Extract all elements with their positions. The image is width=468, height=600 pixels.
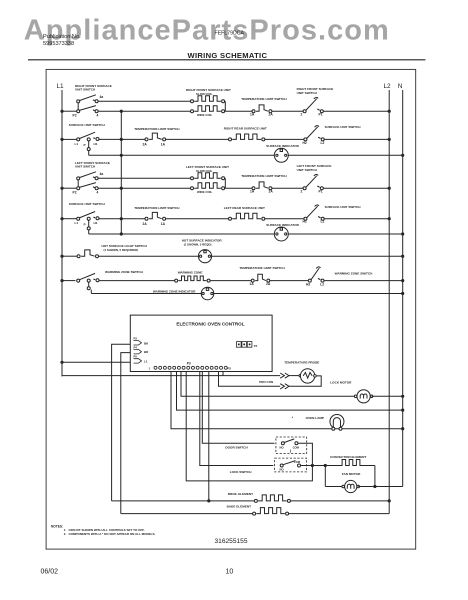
wire row7 to indicator [99,255,199,257]
element convection [325,465,338,467]
svg-text:P5: P5 [134,355,138,359]
svg-text:P3: P3 [228,366,232,370]
svg-text:2: 2 [301,189,303,193]
svg-text:P2: P2 [73,114,77,118]
element left front surface unit wide coil [191,187,194,190]
svg-text:UNIT SWITCH: UNIT SWITCH [75,165,96,169]
wire row8 limit to switch [270,280,309,282]
motor fan motor [342,485,345,488]
element bake [253,512,256,515]
switch right front surface unit switch [77,100,80,103]
svg-text:1A: 1A [161,222,166,226]
switch left front surface unit switch [77,177,80,180]
svg-text:4a: 4a [100,95,104,99]
svg-text:L1: L1 [75,142,79,146]
svg-text:H2: H2 [303,220,307,224]
feeder bus A (vertical) [120,111,122,234]
wire row2 coil to switch [265,138,304,140]
svg-text:1A: 1A [161,143,166,147]
wire pin drop to lock row2 [177,372,403,411]
svg-text:WARMING ZONE: WARMING ZONE [178,271,203,275]
wire row1 to L2 [323,110,389,112]
wire row4 limit to switch [272,187,303,189]
svg-text:BAKE ELEMENT: BAKE ELEMENT [227,505,252,509]
svg-text:1: 1 [149,366,151,370]
junction row7-N [401,255,404,258]
junction row3-N [401,154,404,157]
svg-text:LOCK MOTOR: LOCK MOTOR [330,380,352,384]
switch temperature limit row2 [145,138,148,141]
schematic border frame [46,69,416,549]
switch left front surface unit right [303,187,306,190]
svg-text:WIRING SCHEMATIC: WIRING SCHEMATIC [188,51,268,60]
wire row1 main [98,110,190,112]
junction conv-fan tie [373,485,376,488]
svg-text:SLOW COIL: SLOW COIL [196,169,213,173]
bus N (vertical) [402,90,404,487]
op-amp U1 electronic oven control box [130,315,272,371]
svg-text:WARMING ZONE INDICATOR: WARMING ZONE INDICATOR [153,290,196,294]
svg-text:5995373338: 5995373338 [43,41,74,47]
wire row1 to limit [225,110,252,112]
svg-text:TEMPERATURE LIMIT SWITCH: TEMPERATURE LIMIT SWITCH [239,266,285,270]
junction busA-row3 [120,154,123,157]
svg-text:FEFL79DCA: FEFL79DCA [215,31,245,37]
junction L1-row7 [60,255,63,258]
wire row9 to N [214,293,403,295]
junction row2-L2 [388,138,391,141]
switch surface unit row2 [77,138,80,141]
svg-text:BROIL ELEMENT: BROIL ELEMENT [228,492,253,496]
wire row5 limit to coil [166,218,229,220]
motor lock motor [354,395,357,398]
svg-text:L2: L2 [321,141,325,145]
wire broil to L2 [290,500,389,502]
svg-text:TEMPERATURE LIMIT SWITCH: TEMPERATURE LIMIT SWITCH [241,174,287,178]
svg-text:2A: 2A [143,222,148,226]
svg-text:SURFACE UNIT SWITCH: SURFACE UNIT SWITCH [69,123,106,127]
wire row5 to L2 [324,218,389,220]
junction busA-row6 [120,232,123,235]
junction row8-N [401,279,404,282]
svg-text:BR: BR [144,350,149,354]
switch lock (dashed box) [275,458,307,472]
wire lock switch out [301,465,326,467]
connector P2 BK [134,341,142,345]
svg-text:SURFACE UNIT SWITCH: SURFACE UNIT SWITCH [69,202,106,206]
svg-text:1A: 1A [250,282,255,286]
wire row4 upper branch [98,177,190,179]
element left front surface unit slow coil [191,177,194,180]
svg-text:DOOR SWITCH: DOOR SWITCH [225,445,248,449]
svg-text:L1: L1 [75,221,79,225]
element broil [254,499,257,502]
svg-text:UNIT SWITCH: UNIT SWITCH [297,91,318,95]
svg-text:P: P [84,222,86,226]
svg-text:NOTES:: NOTES: [51,525,63,529]
svg-text:FAN MOTOR: FAN MOTOR [342,472,361,476]
svg-text:2A: 2A [269,112,274,116]
svg-text:P2: P2 [73,191,77,195]
wire row8 to N [324,280,403,282]
wire row3 to N [288,154,402,156]
indicator surface indicator row6 [274,227,288,241]
wire pin drop to lock switch [200,372,273,466]
svg-text:AppliancePartsPros.com: AppliancePartsPros.com [24,14,389,46]
component temperature probe [289,375,299,377]
junction pin drop-broil [207,499,210,502]
svg-text:2A: 2A [143,143,148,147]
svg-text:TEMPERATURE PROBE: TEMPERATURE PROBE [284,360,319,364]
switch warming zone switch [77,279,80,282]
svg-text:P1: P1 [319,189,323,193]
svg-text:L2: L2 [384,83,392,90]
svg-text:H1: H1 [94,142,98,146]
wire pin drop to oven lamp row [171,372,403,429]
svg-text:OVEN LAMP: OVEN LAMP [306,416,324,420]
element right rear surface unit [229,138,232,141]
wire bake to L2 [289,513,390,515]
svg-text:316255155: 316255155 [214,538,247,545]
indicator surface indicator row3 [274,148,288,162]
junction L1-row8 [60,279,63,282]
svg-text:LOCK SWITCH: LOCK SWITCH [230,470,253,474]
junction L1-EOC branch [60,361,63,364]
bus L2 (vertical) [388,90,390,514]
svg-text:2: 2 [301,112,303,116]
junction busA-row5 [120,217,123,220]
junction row1-L2 [388,110,391,113]
connector P4 BR [134,350,142,354]
svg-text:L1: L1 [144,359,148,363]
svg-text:P2: P2 [134,337,138,341]
lamp oven lamp [330,415,344,428]
svg-text:*: * [292,416,294,420]
wire door switch out [298,443,313,465]
wire row2 limit to coil [166,138,229,140]
junction row5-L2 [388,217,391,220]
svg-text:COM: COM [294,460,301,464]
wire EOC BR to bake feeder [121,353,131,514]
junction busA-row4 [120,187,123,190]
wire row7 to N [212,255,403,257]
svg-text:NO: NO [280,446,284,450]
wire row1 coil merge [224,101,226,111]
wire broil row [112,500,256,502]
switch surface unit row5 [77,217,80,220]
publication number text [43,34,81,47]
svg-text:SURFACE UNIT SWITCH: SURFACE UNIT SWITCH [325,205,362,209]
svg-text:LEFT REAR SURFACE UNIT: LEFT REAR SURFACE UNIT [224,206,265,210]
wire row8 switch to coil [99,280,175,282]
wire row1 upper branch [98,100,190,102]
svg-text:1A: 1A [250,189,255,193]
connector P5 L1 [134,359,142,363]
svg-text:P3: P3 [187,362,191,366]
switch surface unit row5 right [304,217,307,220]
wire EOC BK to broil feeder [112,344,131,501]
junction row4-L2 [388,187,391,190]
svg-text:RIGHT REAR SURFACE UNIT: RIGHT REAR SURFACE UNIT [224,127,267,131]
junction L1-row2 [60,138,63,141]
svg-text:TEMPERATURE LIMIT SWITCH: TEMPERATURE LIMIT SWITCH [241,97,287,101]
junction L1-row4 [60,187,63,190]
svg-text:BK: BK [144,341,149,345]
svg-text:P4: P4 [254,344,258,348]
svg-text:UNIT SWITCH: UNIT SWITCH [75,88,96,92]
element left rear surface unit [229,217,232,220]
wire row5 to limit [99,218,145,220]
wire pin drop to broil row [208,372,210,501]
wire row2 to L2 [324,138,389,140]
junction door-lock tie [311,464,314,467]
svg-text:SURFACE INDICATOR: SURFACE INDICATOR [266,223,299,227]
junction busA-row2 [120,138,123,141]
svg-text:WIDE COIL: WIDE COIL [197,190,212,194]
svg-text:06/02: 06/02 [41,569,59,576]
wire lock motor to N [372,395,403,397]
svg-text:H1: H1 [94,221,98,225]
svg-text:4: 4 [97,114,99,118]
svg-text:COM: COM [293,446,300,450]
svg-text:WARMING ZONE SWITCH: WARMING ZONE SWITCH [105,270,144,274]
wire row3 pilot drop [88,151,90,156]
wire convection drop [374,466,376,487]
svg-text:(1 SHOWN, 5 REQD): (1 SHOWN, 5 REQD) [184,242,212,246]
switch temperature limit row8 [251,279,254,282]
svg-text:ELECTRONIC OVEN CONTROL: ELECTRONIC OVEN CONTROL [176,321,244,326]
svg-text:2.: 2. [64,532,67,536]
svg-text:L2: L2 [320,282,324,286]
junction lock motor-N [401,395,404,398]
wire fan branch right [358,486,403,488]
svg-text:TEMPERATURE LIMIT SWITCH: TEMPERATURE LIMIT SWITCH [134,127,180,131]
svg-text:Publication No.: Publication No. [43,34,81,40]
svg-text:SURFACE INDICATOR: SURFACE INDICATOR [266,144,299,148]
switch warming zone right [308,279,311,282]
svg-text:4a: 4a [100,172,104,176]
display seven-segment P4 [237,342,242,348]
svg-text:WARMING ZONE SWITCH: WARMING ZONE SWITCH [335,271,374,275]
switch temperature limit row1 [252,110,255,113]
svg-text:2A: 2A [269,189,274,193]
svg-text:CONVECTION ELEMENT: CONVECTION ELEMENT [330,455,366,459]
svg-text:P1: P1 [319,112,323,116]
wire pin drop to door switch [202,372,274,444]
wire row5 from L1 [62,218,77,220]
svg-text:P4: P4 [134,346,138,350]
junction L1-row1 [60,110,63,113]
wire pin drop to probe chevron [222,372,224,376]
svg-text:SLOW COIL: SLOW COIL [196,92,213,96]
wire row6 pilot drop [88,230,90,234]
wire row2 from L1 [62,138,77,140]
svg-text:1A: 1A [250,112,255,116]
svg-text:L2: L2 [321,220,325,224]
svg-text:P: P [84,143,86,147]
wire row1 limit to switch [272,110,303,112]
svg-text:WIDE COIL: WIDE COIL [197,113,212,117]
element right front surface unit slow coil [191,100,194,103]
switch surface unit row2 right [304,138,307,141]
wire row1 from L1 [62,110,77,112]
switch temperature limit row5 [145,217,148,220]
switch door (dashed box) [276,437,307,454]
switch right front surface unit (right) [303,110,306,113]
svg-text:2A: 2A [266,282,271,286]
connector probe chevron lower [280,384,289,389]
wire L1 lower elbow to probe circuit [62,362,280,375]
junction row410-N [401,409,404,412]
wire fan branch left [325,486,343,488]
svg-text:4: 4 [97,191,99,195]
element right front surface unit wide coil [191,110,194,113]
junction lamp row-N [401,427,404,430]
svg-text:L1: L1 [57,83,65,90]
svg-text:SURFACE UNIT SWITCH: SURFACE UNIT SWITCH [325,125,362,129]
svg-text:N: N [398,83,403,90]
wire bake row [121,513,254,515]
bus L1 (vertical) [61,90,63,376]
element warming zone [175,279,178,282]
wire pin drop to lock motor row [181,372,356,397]
wire L1 to EOC P5 [62,361,130,363]
junction row9-N [401,292,404,295]
junction L1-row5 [60,217,63,220]
junction busA-row1 [120,110,123,113]
svg-text:NO: NO [280,467,284,471]
wire row7 from L1 [62,255,77,257]
wire row6 to N [288,233,402,235]
junction broil-L2 [388,499,391,502]
wire row5 coil to switch [265,218,304,220]
svg-text:COMPONENTS WITH A * DO NOT APP: COMPONENTS WITH A * DO NOT APPEAR ON ALL… [69,532,156,536]
svg-text:H2: H2 [306,282,310,286]
svg-text:(1 SHOWN, 5 REQUIRED): (1 SHOWN, 5 REQUIRED) [104,248,139,252]
wire row8 from L1 [62,280,75,282]
switch hot surface light switch [77,255,80,258]
svg-text:UNIT SWITCH: UNIT SWITCH [297,168,318,172]
indicator hot surface indicator [198,250,211,263]
svg-text:PRO CON: PRO CON [259,380,273,384]
wire row4 coil merge [224,178,226,188]
wire lock switch return riser [186,372,312,481]
indicator warming zone indicator [201,287,214,300]
wire row4 main [98,187,190,189]
svg-text:10: 10 [226,569,234,576]
wire row9 pilot drop [90,290,92,294]
junction row6-N [401,232,404,235]
wire row4 to limit [225,187,252,189]
wire pin drop to probe connector low [219,372,281,387]
header rule [28,59,425,61]
wire conv left node drop [324,466,326,487]
wire row8 coil to limit [210,280,251,282]
svg-text:H2: H2 [303,141,307,145]
connector probe chevron upper [280,373,289,378]
svg-text:TEMPERATURE LIMIT SWITCH: TEMPERATURE LIMIT SWITCH [134,206,180,210]
switch temperature limit row4 [252,187,255,190]
wire row4 to L2 [323,187,389,189]
junction conv left node [324,464,327,467]
wire row4 from L1 [62,187,77,189]
wire row2 to limit [99,138,145,140]
